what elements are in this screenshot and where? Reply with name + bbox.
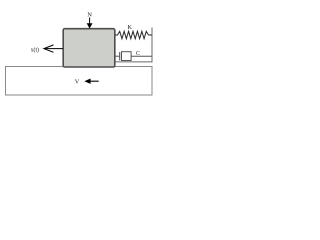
damper rod (right to wall) — [131, 55, 152, 57]
spring K — [115, 31, 152, 38]
wall (right vertical support) — [151, 28, 153, 63]
damper C rod (left) — [115, 55, 120, 57]
damper cylinder — [122, 52, 132, 61]
svg-text:K: K — [127, 24, 132, 31]
mass block M — [63, 29, 115, 67]
displacement arrow x(t) — [44, 45, 63, 52]
wire shelf line from mass to wall — [115, 61, 153, 63]
force arrow N — [87, 18, 93, 29]
base (ground block) — [6, 67, 153, 96]
velocity arrow V — [84, 79, 98, 84]
svg-text:x(t): x(t) — [31, 47, 39, 54]
svg-text:N: N — [87, 12, 92, 19]
svg-text:C: C — [136, 51, 140, 57]
damper piston plate — [119, 52, 121, 60]
svg-text:V: V — [75, 79, 80, 86]
